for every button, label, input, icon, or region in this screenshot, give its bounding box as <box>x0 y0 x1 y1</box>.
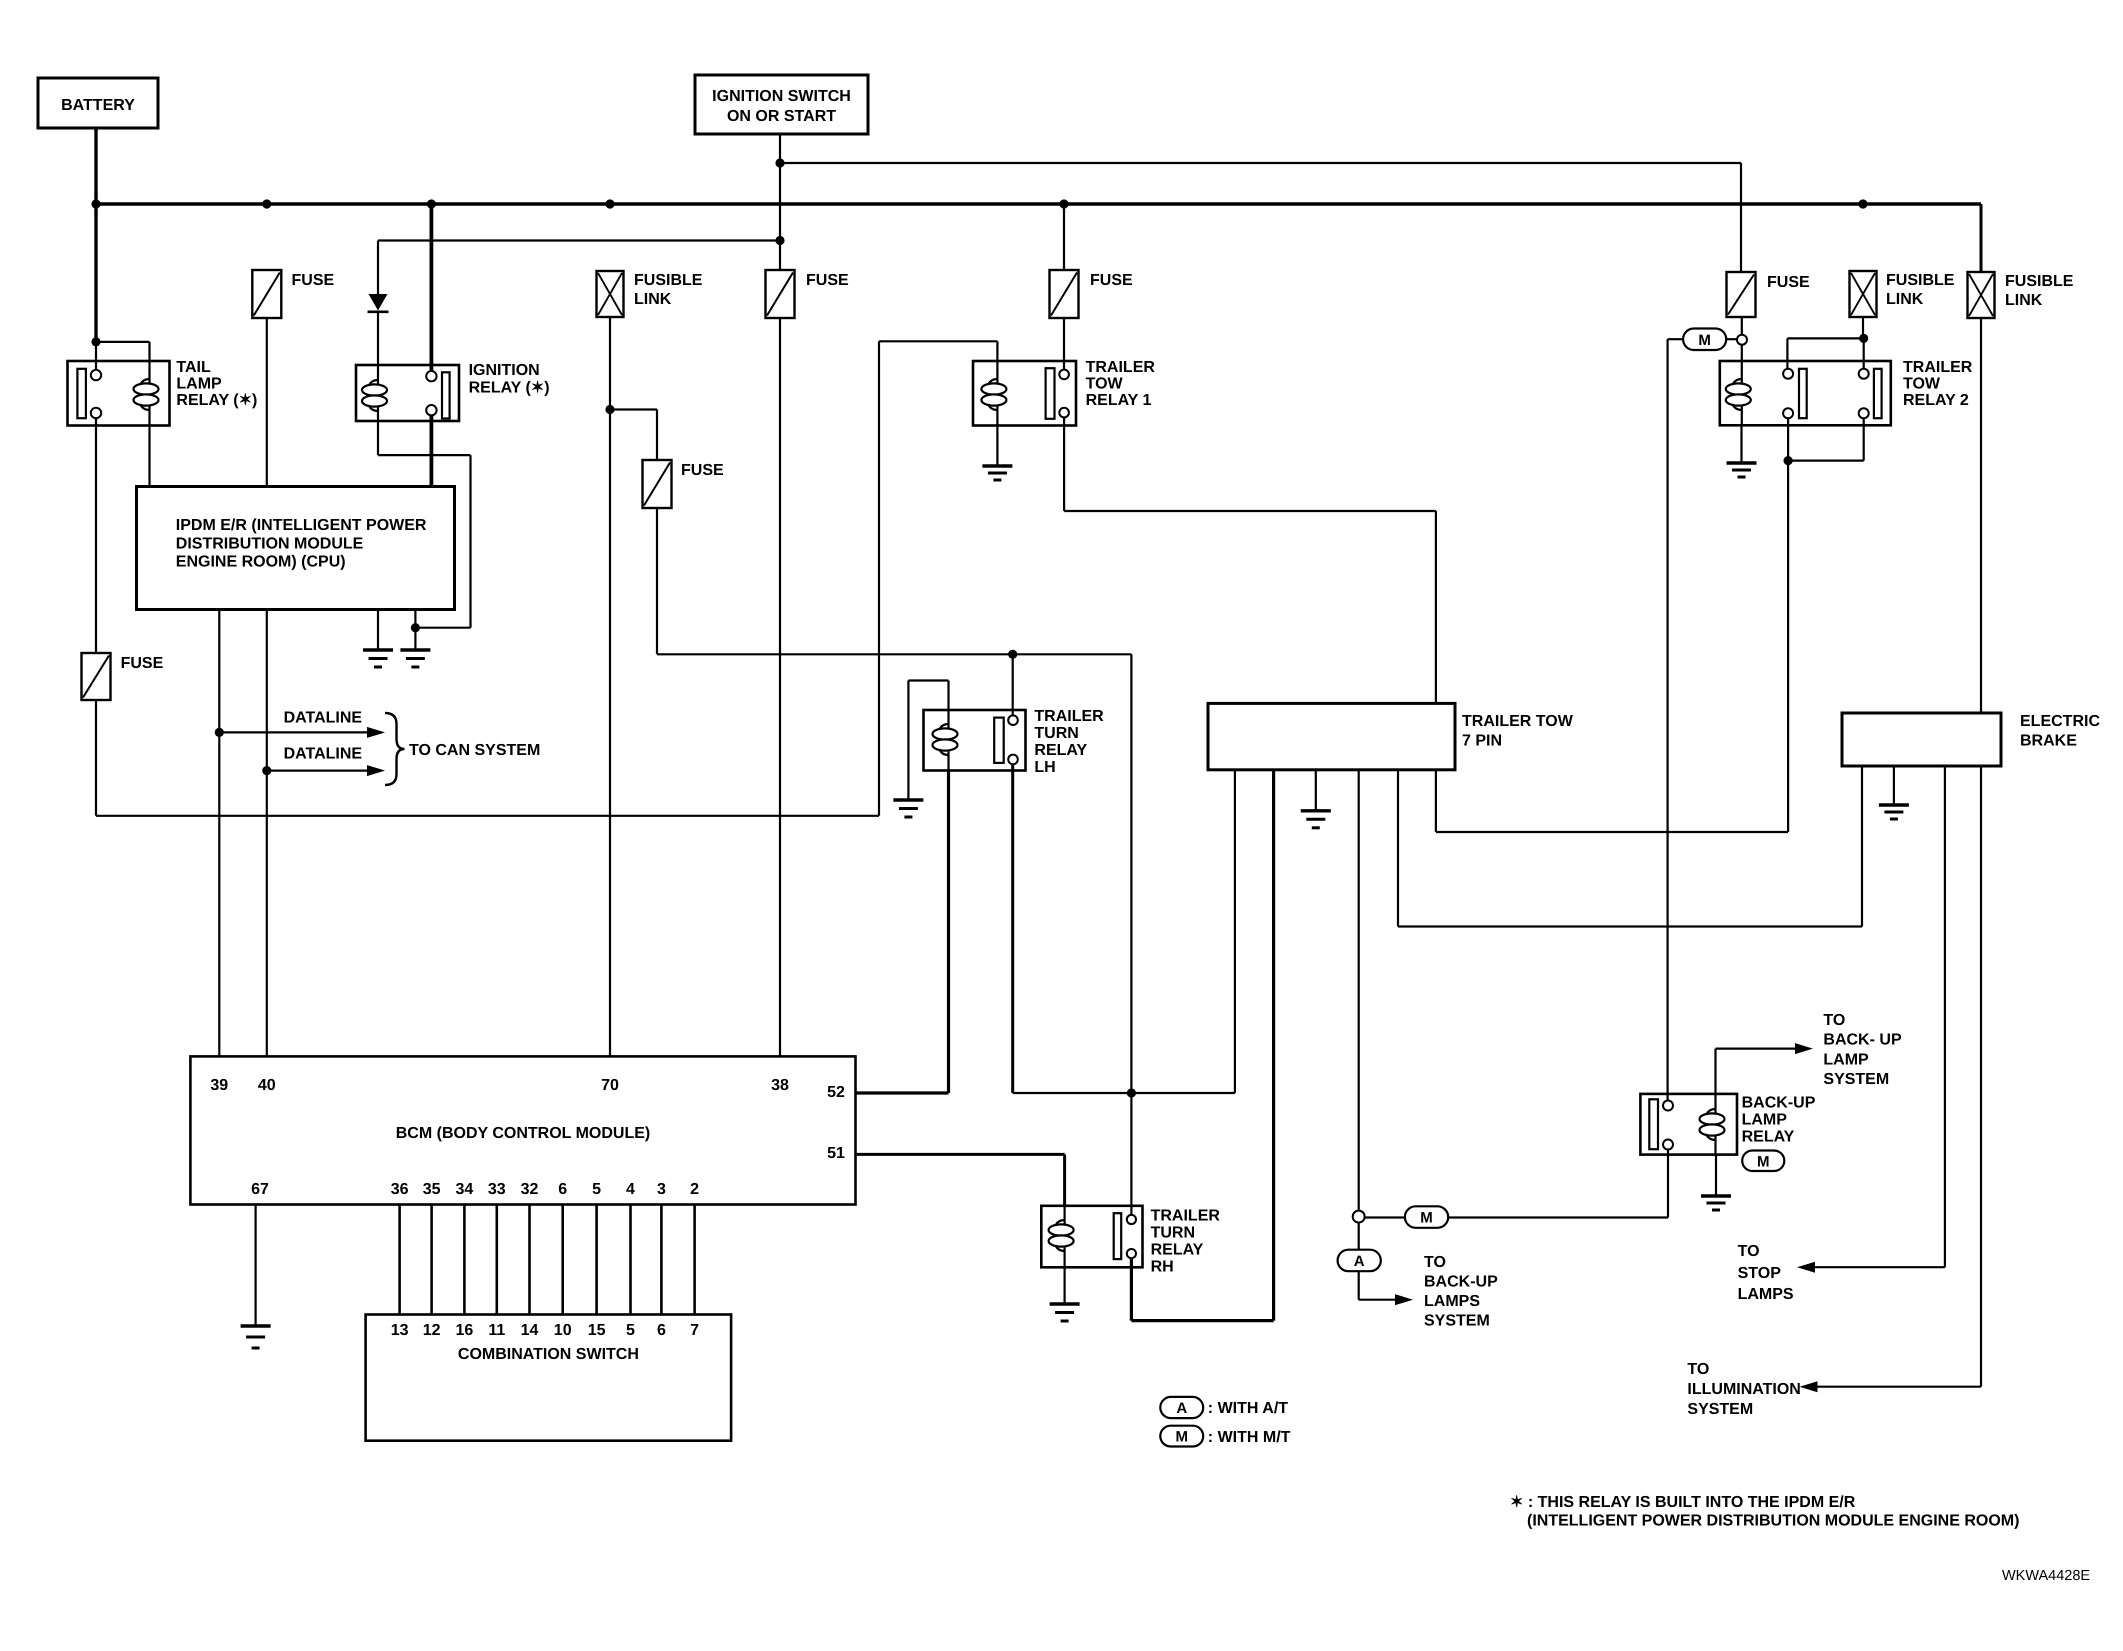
node ignition feed junction <box>775 158 784 167</box>
wire relay 2 outputs join <box>1788 418 1864 460</box>
legend oval M <box>1160 1426 1290 1447</box>
diode D1 <box>368 241 389 366</box>
wire M oval to circle <box>1365 1216 1405 1218</box>
wire connector to relay 2 coil <box>1741 345 1743 361</box>
pin 40 label <box>258 1077 276 1094</box>
svg-text:52: 52 <box>827 1084 845 1101</box>
battery box <box>38 78 158 128</box>
wire 7pin pin4 down <box>1358 770 1360 1211</box>
ignition feed line <box>780 162 1741 164</box>
node y1093 junction <box>1127 1088 1136 1097</box>
wire to LH relay top pin <box>1012 654 1014 720</box>
node fusible link branch junction <box>605 405 614 414</box>
fusible link FL2 <box>1850 271 1955 317</box>
svg-text:IGNITION SWITCH: IGNITION SWITCH <box>712 88 851 105</box>
oval A <box>1338 1250 1381 1272</box>
node bus-ignition-relay junction <box>427 199 436 208</box>
svg-text:FUSE: FUSE <box>1090 272 1133 289</box>
wire back-up relay coil to arrow <box>1716 1043 1814 1094</box>
svg-text:RELAY (✶): RELAY (✶) <box>176 392 257 409</box>
svg-text:FUSE: FUSE <box>681 462 724 479</box>
wire jog to tail relay coil <box>96 342 150 361</box>
fuse F2 <box>766 270 850 318</box>
wire LH coil top to ground <box>908 681 948 801</box>
fusible link FL3 <box>1968 272 2074 318</box>
wire IPDM output to BCM pin 40 <box>266 610 268 1057</box>
wire battery to tail lamp relay <box>94 204 97 371</box>
IPDM E/R box <box>137 487 455 610</box>
svg-text:BCM (BODY CONTROL MODULE): BCM (BODY CONTROL MODULE) <box>396 1125 651 1142</box>
svg-text:RELAY: RELAY <box>1742 1129 1795 1146</box>
ground relay 1 coil ground <box>982 426 1012 481</box>
svg-text:TAIL: TAIL <box>176 359 211 376</box>
node relay 2 output junction <box>1784 456 1793 465</box>
svg-text:M: M <box>1757 1153 1770 1170</box>
svg-text:33: 33 <box>488 1181 506 1198</box>
svg-text:FUSIBLE: FUSIBLE <box>2005 273 2074 290</box>
node bus-fusible-link junction <box>605 199 614 208</box>
wire M oval lead <box>1668 338 1684 340</box>
svg-text:M: M <box>1176 1429 1189 1446</box>
svg-text:LINK: LINK <box>634 291 672 308</box>
wire M line down to back-up relay <box>1666 339 1668 1100</box>
node dataline 2 junction <box>262 766 271 775</box>
fuse F6 <box>1727 272 1811 317</box>
svg-text:BRAKE: BRAKE <box>2020 733 2077 750</box>
pin 70 label <box>601 1077 619 1094</box>
fuse F4 <box>643 460 725 508</box>
svg-text:FUSE: FUSE <box>1767 274 1810 291</box>
svg-text:16: 16 <box>456 1322 474 1339</box>
relay trailer turn relay RH <box>1041 1206 1142 1268</box>
wire tail relay coil to IPDM <box>148 426 150 487</box>
pin 39 label <box>210 1077 228 1094</box>
svg-text:39: 39 <box>210 1077 228 1094</box>
node tail lamp relay branch <box>91 337 100 346</box>
wire 7pin pin1 down <box>1234 770 1236 1093</box>
label tail lamp relay <box>176 359 257 409</box>
svg-text:ELECTRIC: ELECTRIC <box>2020 713 2100 730</box>
wire electric brake to illumination <box>1800 766 1982 1392</box>
svg-text:7: 7 <box>690 1322 699 1339</box>
wire circle to A oval <box>1358 1223 1360 1250</box>
svg-text:70: 70 <box>601 1077 619 1094</box>
ground back-up relay ground <box>1701 1155 1731 1210</box>
combination switch box <box>366 1315 731 1441</box>
svg-text:LAMPS: LAMPS <box>1424 1293 1480 1310</box>
wire ignition column <box>779 163 781 270</box>
figure number <box>2002 1568 2090 1584</box>
svg-text:M: M <box>1698 332 1711 349</box>
svg-text:TO: TO <box>1424 1254 1446 1271</box>
label dataline 1 <box>284 710 363 727</box>
wire LH coil to BCM pin 52 <box>856 771 949 1094</box>
svg-text:FUSE: FUSE <box>806 272 849 289</box>
svg-text:DATALINE: DATALINE <box>284 746 363 763</box>
fusible link FL1 <box>597 271 703 317</box>
node turn relay LH feed junction <box>1008 650 1017 659</box>
electric brake box <box>1842 713 2001 766</box>
svg-text:36: 36 <box>391 1181 409 1198</box>
wire to RH relay column <box>1130 654 1132 1215</box>
wire relay 1 output <box>1064 417 1436 703</box>
node diode branch junction <box>775 236 784 245</box>
fuse F3 wire <box>1063 204 1065 270</box>
ground BCM pin 67 ground <box>241 1205 271 1349</box>
svg-text:SYSTEM: SYSTEM <box>1687 1401 1753 1418</box>
svg-text:LH: LH <box>1034 759 1055 776</box>
wire bus to ignition relay contact <box>429 204 433 371</box>
svg-text:6: 6 <box>657 1322 666 1339</box>
svg-text:RELAY 2: RELAY 2 <box>1903 392 1969 409</box>
wire riser x879 <box>878 341 880 816</box>
wire fuse F6 to connector <box>1741 317 1743 335</box>
wire fuse F3 to relay 1 <box>1063 318 1065 370</box>
svg-text:LAMP: LAMP <box>1823 1051 1869 1068</box>
wire battery to bus <box>94 128 97 204</box>
svg-text:LAMP: LAMP <box>1742 1112 1788 1129</box>
svg-text:FUSIBLE: FUSIBLE <box>1886 272 1955 289</box>
svg-text:✶ : THIS RELAY IS BUILT INTO T: ✶ : THIS RELAY IS BUILT INTO THE IPDM E/… <box>1510 1494 1856 1511</box>
svg-text:LINK: LINK <box>1886 291 1924 308</box>
wire ignition coil ground path <box>378 421 471 628</box>
label back-up lamp relay <box>1742 1095 1816 1146</box>
svg-text:RELAY (✶): RELAY (✶) <box>469 380 550 397</box>
svg-text:3: 3 <box>657 1181 666 1198</box>
wire fusible link FL1 to BCM pin 70 <box>609 317 611 1056</box>
oval M top <box>1683 329 1737 351</box>
svg-text:10: 10 <box>554 1322 572 1339</box>
wire back-up relay output <box>1448 1150 1668 1218</box>
svg-text:5: 5 <box>626 1322 635 1339</box>
ground 7pin ground <box>1301 770 1331 828</box>
label to CAN system <box>409 742 540 759</box>
label trailer tow 7 pin <box>1462 713 1574 750</box>
wire FL1 to relay 2 <box>1862 317 1864 338</box>
wire jog to relay1 coil <box>879 341 997 361</box>
ground IPDM ground 2 <box>400 610 430 668</box>
svg-text:BACK- UP: BACK- UP <box>1823 1032 1902 1049</box>
svg-text:TO: TO <box>1823 1012 1845 1029</box>
label ignition relay <box>469 362 550 397</box>
svg-text:IGNITION: IGNITION <box>469 362 540 379</box>
svg-text:RELAY: RELAY <box>1151 1242 1204 1259</box>
svg-text:RH: RH <box>1151 1259 1174 1276</box>
wire RH contact output <box>1131 770 1273 1321</box>
ground IPDM ground 1 <box>363 610 393 668</box>
svg-text:SYSTEM: SYSTEM <box>1823 1071 1889 1088</box>
svg-text:A: A <box>1354 1253 1365 1270</box>
node bus-fuse3 junction <box>1059 199 1068 208</box>
pin 51 label <box>827 1145 845 1162</box>
pin 38 label <box>771 1077 789 1094</box>
oval M bottom <box>1405 1206 1448 1228</box>
svg-text:(INTELLIGENT POWER DISTRIBUTIO: (INTELLIGENT POWER DISTRIBUTION MODULE E… <box>1527 1513 2019 1530</box>
node A/M connector circle <box>1353 1211 1365 1223</box>
svg-text:51: 51 <box>827 1145 845 1162</box>
wires BCM to combination switch <box>400 1205 695 1315</box>
svg-text:: WITH A/T: : WITH A/T <box>1208 1400 1289 1417</box>
svg-text:67: 67 <box>251 1181 269 1198</box>
svg-text:LAMPS: LAMPS <box>1738 1286 1794 1303</box>
wire 7pin pin6 to relay 2 <box>1436 461 1788 832</box>
label trailer turn relay RH <box>1151 1208 1221 1276</box>
svg-text:ILLUMINATION: ILLUMINATION <box>1687 1381 1800 1398</box>
svg-text:A: A <box>1176 1400 1187 1417</box>
svg-text:SYSTEM: SYSTEM <box>1424 1313 1490 1330</box>
node bus-fuse1 junction <box>262 199 271 208</box>
svg-text:ON OR START: ON OR START <box>727 108 836 125</box>
brace to CAN system <box>385 713 405 785</box>
svg-text:RELAY: RELAY <box>1034 742 1087 759</box>
fuse F5 <box>82 653 164 700</box>
pin 52 label <box>827 1084 845 1101</box>
svg-text:35: 35 <box>423 1181 441 1198</box>
svg-text:BATTERY: BATTERY <box>61 97 135 114</box>
BCM bottom pin labels <box>391 1181 699 1198</box>
label trailer tow relay 1 <box>1086 359 1156 409</box>
node battery bus junction <box>91 199 100 208</box>
connector circle M/T <box>1737 335 1747 345</box>
footnote <box>1510 1494 2019 1530</box>
relay trailer turn relay LH <box>924 710 1026 771</box>
wire fuse F5 down <box>95 700 97 816</box>
svg-text:34: 34 <box>456 1181 474 1198</box>
svg-text:40: 40 <box>258 1077 276 1094</box>
svg-text:TURN: TURN <box>1151 1225 1195 1242</box>
ground electric brake ground <box>1879 766 1909 819</box>
svg-text:13: 13 <box>391 1322 409 1339</box>
svg-text:14: 14 <box>521 1322 539 1339</box>
node bus-fusible-link1 junction <box>1858 199 1867 208</box>
wire dataline 2 arrow <box>267 765 385 776</box>
fuse F1 <box>252 270 334 318</box>
svg-text:TRAILER TOW: TRAILER TOW <box>1462 713 1574 730</box>
fuse F3 <box>1050 270 1134 318</box>
svg-text:IPDM E/R (INTELLIGENT POWER: IPDM E/R (INTELLIGENT POWER <box>176 517 427 534</box>
label to back-up lamp system <box>1823 1012 1902 1088</box>
wire IPDM output to BCM pin 39 <box>218 610 220 1057</box>
svg-text:38: 38 <box>771 1077 789 1094</box>
label dataline 2 <box>284 746 363 763</box>
svg-text:BACK-UP: BACK-UP <box>1742 1095 1816 1112</box>
wire fuse F2 to BCM pin 38 <box>779 318 781 1056</box>
svg-text:TRAILER: TRAILER <box>1086 359 1156 376</box>
svg-text:STOP: STOP <box>1738 1265 1782 1282</box>
wire diode branch <box>378 239 780 241</box>
wire horizontal y816 <box>96 815 879 817</box>
ground RH coil ground <box>1050 1267 1080 1321</box>
wire jog to fuse F4 <box>610 410 657 461</box>
wire A oval to arrow <box>1359 1271 1413 1305</box>
svg-text:TRAILER: TRAILER <box>1903 359 1973 376</box>
svg-text:TOW: TOW <box>1086 376 1124 393</box>
node relay 2 feed junction <box>1859 334 1868 343</box>
legend oval A <box>1160 1397 1288 1418</box>
svg-text:TURN: TURN <box>1034 725 1078 742</box>
pin 67 label <box>251 1181 269 1198</box>
wire ignition feed to fuse F6 <box>1740 163 1742 272</box>
svg-text:4: 4 <box>626 1181 635 1198</box>
svg-text:LAMP: LAMP <box>176 376 222 393</box>
label electric brake <box>2020 713 2100 750</box>
wire LH contact down <box>1011 764 1014 1093</box>
svg-text:TO CAN SYSTEM: TO CAN SYSTEM <box>409 742 540 759</box>
svg-text:WKWA4428E: WKWA4428E <box>2002 1568 2090 1584</box>
wire ignition relay contact to IPDM <box>429 415 433 486</box>
svg-text:32: 32 <box>521 1181 539 1198</box>
svg-text:TRAILER: TRAILER <box>1151 1208 1221 1225</box>
ground LH relay ground <box>893 800 923 817</box>
relay trailer tow relay 2 <box>1720 361 1891 425</box>
label to back-up lamps system <box>1424 1254 1498 1330</box>
svg-text:11: 11 <box>488 1322 505 1339</box>
svg-text:DATALINE: DATALINE <box>284 710 363 727</box>
relay tail lamp relay <box>68 361 170 426</box>
svg-text:TO: TO <box>1687 1361 1709 1378</box>
wire 7pin pin5 to electric brake <box>1398 766 1862 927</box>
svg-text:7 PIN: 7 PIN <box>1462 733 1502 750</box>
svg-text:5: 5 <box>592 1181 601 1198</box>
wire electric brake to stop lamps <box>1797 766 1945 1273</box>
svg-text:ENGINE ROOM) (CPU): ENGINE ROOM) (CPU) <box>176 554 346 571</box>
label trailer tow relay 2 <box>1903 359 1973 409</box>
ignition switch box <box>695 75 868 134</box>
ground relay 2 coil ground <box>1727 425 1757 477</box>
wire dataline 1 arrow <box>219 727 385 738</box>
svg-text:15: 15 <box>588 1322 606 1339</box>
wire bus corner to FL3 <box>1980 204 1983 272</box>
svg-text:2: 2 <box>690 1181 699 1198</box>
svg-text:12: 12 <box>423 1322 441 1339</box>
svg-text:BACK-UP: BACK-UP <box>1424 1274 1498 1291</box>
svg-text:: WITH M/T: : WITH M/T <box>1208 1429 1291 1446</box>
BCM box <box>190 1056 855 1204</box>
label trailer turn relay LH <box>1034 708 1104 776</box>
wire BCM pin 51 to RH coil <box>856 1154 1065 1205</box>
svg-text:RELAY 1: RELAY 1 <box>1086 392 1152 409</box>
svg-text:TRAILER: TRAILER <box>1034 708 1104 725</box>
svg-text:FUSE: FUSE <box>121 655 164 672</box>
wire y1093 horizontal <box>1013 1092 1235 1094</box>
relay trailer tow relay 1 <box>973 361 1076 426</box>
oval M back-up relay <box>1742 1151 1784 1172</box>
svg-text:FUSE: FUSE <box>292 272 335 289</box>
relay ignition relay <box>356 365 459 421</box>
label to illumination system <box>1687 1361 1800 1418</box>
wire relay 2 contact2 feed <box>1863 338 1865 369</box>
svg-text:COMBINATION SWITCH: COMBINATION SWITCH <box>458 1346 639 1363</box>
battery bus <box>96 202 1981 206</box>
svg-text:TO: TO <box>1738 1243 1760 1260</box>
wire FL3 to electric brake <box>1980 317 1982 713</box>
node dataline 1 junction <box>215 728 224 737</box>
label to stop lamps <box>1738 1243 1794 1303</box>
node ignition coil ground junction <box>411 623 420 632</box>
svg-text:FUSIBLE: FUSIBLE <box>634 272 703 289</box>
wire ignition switch down <box>779 134 781 163</box>
wire relay 2 contact1 feed <box>1787 338 1863 369</box>
svg-text:TOW: TOW <box>1903 376 1941 393</box>
svg-text:6: 6 <box>558 1181 567 1198</box>
wire tail relay contact to fuse F5 <box>95 418 97 653</box>
svg-text:M: M <box>1420 1210 1433 1227</box>
svg-text:DISTRIBUTION MODULE: DISTRIBUTION MODULE <box>176 535 364 552</box>
wire fuse F1 to IPDM <box>266 318 268 487</box>
wire horizontal to turn relays <box>657 653 1131 655</box>
trailer tow 7 pin box <box>1208 703 1455 769</box>
wire fuse F4 down <box>656 508 658 654</box>
svg-text:LINK: LINK <box>2005 292 2043 309</box>
relay back-up lamp relay <box>1640 1094 1737 1155</box>
